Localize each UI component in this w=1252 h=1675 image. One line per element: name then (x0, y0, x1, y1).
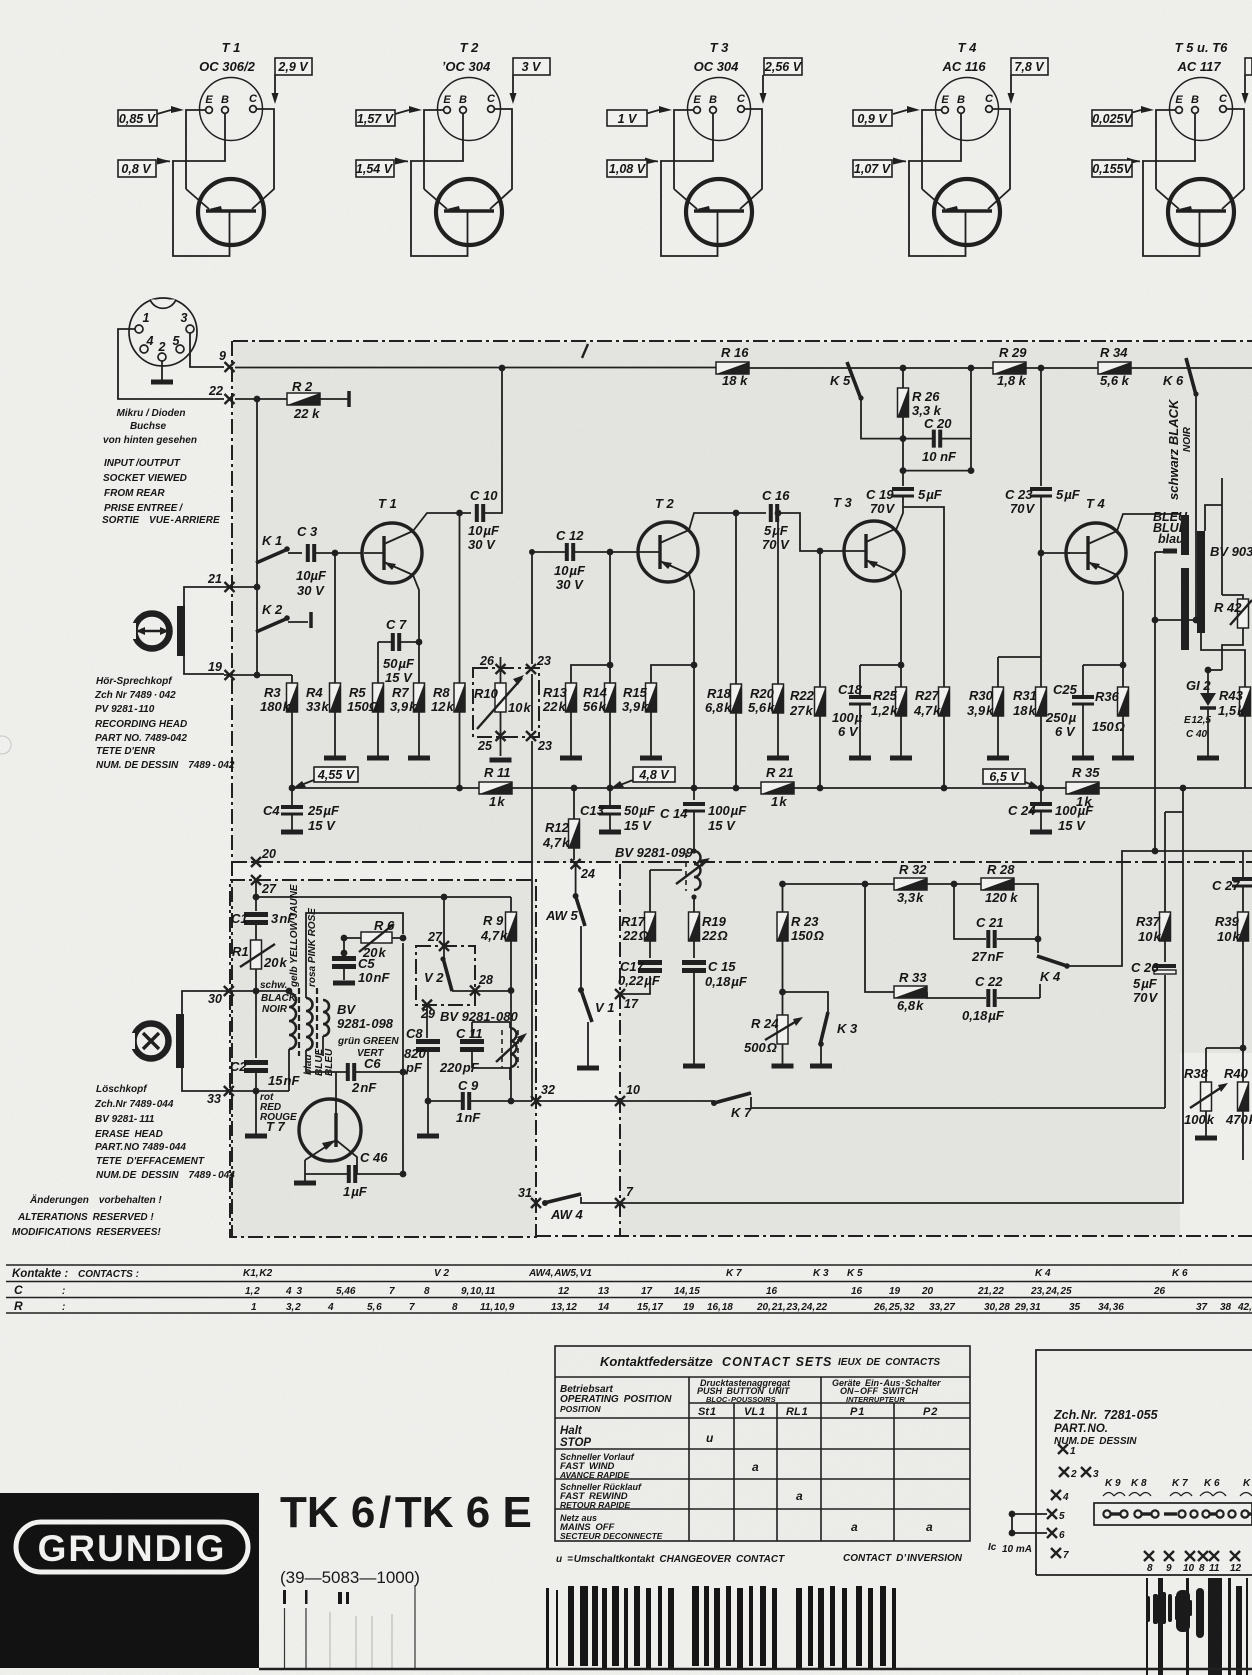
capacitor C22 (927, 992, 1038, 998)
resistor R43 (1240, 687, 1251, 716)
wire R28 to corner (1014, 884, 1038, 939)
resistor R25 (896, 687, 907, 716)
capacitor C20 (934, 430, 940, 448)
shaded main schematic region (233, 342, 1252, 863)
capacitor C6 (306, 1071, 403, 1073)
wire 22 down to K1,K2 (256, 399, 258, 676)
transistor T7 (299, 1072, 361, 1174)
transistor pinout T2 (356, 40, 550, 256)
ground R4 (324, 757, 346, 759)
resistor R26 (898, 388, 909, 417)
resistor R12 (569, 819, 580, 848)
resistor R39 (1238, 912, 1249, 941)
wire C7 left to R5 (378, 641, 419, 643)
capacitor C7 (393, 633, 399, 651)
ground C13 (599, 831, 621, 833)
recording head wires (184, 587, 224, 606)
wire T4 base col to R31 (1040, 553, 1042, 687)
ground R5 (367, 757, 389, 759)
switch K6 (1186, 358, 1199, 397)
wire base bias column (609, 552, 611, 683)
transistor pinout T1 (118, 40, 312, 256)
right region left border dash-dot (619, 864, 621, 1237)
transistor pinout T5/T6 (1092, 40, 1252, 256)
ground C2 (245, 1135, 267, 1137)
wire R2 to terminal (320, 398, 348, 400)
ground R7 (408, 757, 430, 759)
punch hole left edge (0, 736, 11, 754)
wire K1 to C3 (288, 552, 302, 554)
resistor R42 (1238, 599, 1249, 628)
capacitor C10 (477, 504, 483, 522)
smeared text row (546, 1586, 896, 1668)
wire T2 emitter (689, 574, 694, 788)
wire collector node to R27 (903, 507, 944, 687)
capacitor C18 (859, 665, 861, 695)
transformer core (1197, 531, 1205, 633)
transistor pinout T3 (607, 40, 803, 256)
transistor T3 (844, 521, 904, 581)
node 26 (496, 664, 506, 674)
oscillator box dash-dot border (230, 880, 536, 1237)
wire T2 collector to C16 (689, 513, 766, 530)
transistor T2 (638, 522, 698, 582)
wire 32 to 10 (536, 1100, 620, 1102)
slash mark on top border (582, 344, 588, 358)
node 23a (526, 664, 536, 674)
resistor R15 (646, 683, 657, 712)
wire 7 line (620, 788, 1183, 1203)
wire R15 top (651, 665, 694, 683)
junction 22/K1 (254, 396, 261, 403)
wire R17 tap (650, 870, 682, 912)
voltage box 4,55V (314, 767, 358, 782)
border top dash-dot (233, 340, 1252, 342)
wire C3 to T1 base (316, 552, 362, 554)
transformer BV9030 primary (1181, 515, 1189, 555)
switch V2 (440, 956, 452, 991)
potentiometer R24 (777, 1015, 788, 1044)
wire transformer secondary bottom (1201, 633, 1245, 670)
small blur dots above 8 9 (1146, 1592, 1192, 1624)
winding bottoms (289, 1036, 323, 1091)
wire V1 to ground (587, 1022, 589, 1066)
resistor R11 (479, 782, 512, 794)
wire R38 branch (1206, 1048, 1243, 1082)
capacitor C25 (1082, 665, 1084, 695)
capacitor C4 (291, 788, 293, 805)
wire R33 row (782, 991, 784, 993)
transformer T7 windings (289, 993, 329, 1050)
wire C20 right riser to bus (970, 368, 972, 471)
capacitor C11 (460, 1042, 484, 1050)
potentiometer R10 (495, 683, 506, 712)
junction base divider (332, 550, 339, 557)
node 31 (531, 1198, 541, 1208)
transistor pinout T4 (853, 40, 1048, 256)
node 21 (225, 582, 235, 592)
wire R23 top row (783, 883, 895, 885)
wire base R22 column (819, 551, 821, 687)
resistor R22 (815, 687, 826, 716)
node 10 (615, 1096, 625, 1106)
terminal K2 (310, 612, 312, 628)
capacitor C1 (244, 915, 268, 923)
pin marks #1-#7 (1047, 1444, 1099, 1561)
capacitor C15 (682, 963, 706, 971)
T2 base junction (607, 549, 614, 556)
capacitor C26 (1154, 966, 1176, 974)
resistor R3 (291, 675, 293, 788)
erase head wires (182, 991, 224, 1014)
resistor R37 (1165, 812, 1183, 912)
capacitor C27 (1242, 851, 1244, 877)
node 22 (225, 394, 235, 404)
node 20 (251, 857, 261, 867)
resistor R31 (1036, 687, 1047, 716)
node 17 (615, 989, 625, 999)
recording head (127, 606, 185, 656)
switch K4 (1037, 939, 1039, 953)
node 28 (470, 986, 480, 996)
wire K7 to R37 column (751, 1097, 1165, 1108)
node 27 (251, 875, 261, 885)
node 29 (422, 1000, 432, 1010)
wire C23 to T4 base (1041, 496, 1070, 553)
wire R23 to K3 (783, 992, 829, 1012)
variable inductor BV9281-099 (694, 851, 701, 890)
capacitor C16 (771, 504, 777, 522)
capacitor C17 (638, 963, 662, 971)
resistor R27 (939, 687, 950, 716)
border left dash-dot (231, 341, 233, 1237)
resistor R33 (894, 986, 927, 998)
resistor R21 (761, 782, 794, 794)
capacitor C5 (343, 938, 345, 955)
transformer core dashes (299, 988, 317, 1056)
top supply bus (235, 367, 1252, 370)
osc top rail (256, 896, 511, 898)
bottom bus (292, 787, 1252, 789)
osc coil variable (510, 1028, 517, 1067)
wire pin1 to node 22 (118, 329, 224, 399)
terminal (348, 391, 350, 407)
resistor R19 (693, 897, 695, 912)
ground R13 (560, 757, 582, 759)
resistor R40 (1238, 1082, 1249, 1111)
resistor R8 (459, 513, 461, 788)
bottom rule (259, 1668, 1252, 1670)
capacitor C14 (693, 788, 695, 800)
ground C4 (281, 831, 303, 833)
wire AW4 to 7 (581, 1197, 620, 1203)
resistor R17 (645, 912, 656, 941)
wire K6 node to tap junction (1193, 617, 1200, 624)
tick marks (283, 1590, 349, 1604)
resistor R18 (735, 513, 737, 684)
wire R26 to C20 (902, 417, 904, 471)
wire K5 to C20 row (861, 399, 903, 439)
resistor R5 (373, 683, 384, 712)
node 30 (224, 986, 234, 996)
node 19 (225, 670, 235, 680)
resistor R32 (894, 878, 927, 890)
wire 27 column (255, 880, 257, 911)
right bottom smears (1146, 1578, 1248, 1675)
resistor R29 (993, 362, 1026, 374)
wire AW5 to V1 (580, 926, 582, 990)
wire C16 to T3 base (779, 513, 846, 551)
wire C14/T2emitter col crossing bus (691, 785, 698, 792)
capacitor C8 (426, 1005, 428, 1038)
node 9 (225, 362, 235, 372)
wire pin3 to node 9 (190, 333, 224, 367)
resistor R2 (287, 393, 320, 405)
resistor R28 (981, 878, 1014, 890)
switch AW5 (573, 893, 585, 926)
record line vertical (531, 553, 533, 1101)
resistor R4 (330, 683, 341, 712)
wire T1 emitter down (413, 575, 419, 683)
wire 24 to AW5 (575, 864, 577, 896)
node 27b (439, 941, 449, 951)
R10 dash-dot box (473, 668, 539, 737)
V2 dash-dot box (416, 946, 475, 1005)
node 33 (224, 1086, 234, 1096)
wire T3 emitter (895, 573, 901, 665)
switch V1 (578, 987, 592, 1022)
K labels and braces (1105, 1478, 1251, 1489)
wire pin2 to ground (161, 361, 163, 380)
wire R13 top (571, 665, 610, 683)
capacitor C12 (567, 543, 573, 561)
capacitor C3 (308, 544, 314, 562)
potentiometer R38 (1201, 1082, 1212, 1111)
capacitor C21 (954, 884, 1038, 939)
wire jog to C19 (903, 470, 971, 472)
wire C22 riser to K4 (1038, 984, 1040, 998)
bottom x marks row (1144, 1551, 1242, 1574)
switch K2 (256, 615, 290, 632)
wire 21 line (224, 586, 257, 588)
transistor T1 (362, 523, 422, 583)
wire secondary top (1205, 478, 1222, 595)
switch K5 (847, 362, 864, 401)
node 24 (571, 859, 581, 869)
resistor R7 (414, 683, 425, 712)
wire bus to C23 (1040, 368, 1042, 486)
wire 33 row (224, 1090, 289, 1092)
contact strip (1094, 1503, 1252, 1525)
wire base divider down to R4 (334, 553, 336, 683)
capacitor C24 (1040, 788, 1042, 802)
wire bus to R26 (902, 368, 904, 388)
resistor R6 (359, 924, 394, 952)
capacitor C13 (609, 788, 611, 805)
resistor R13 (566, 683, 577, 712)
wire C19 to T3 collector (896, 496, 903, 530)
capacitor C46 (305, 1173, 403, 1175)
pigtail 10mA (1012, 1514, 1047, 1533)
transistor T4 (1066, 523, 1126, 583)
resistor R9 (510, 897, 512, 912)
border bottom of main area dash-dot (232, 861, 1252, 863)
wire T4 emitter (1117, 575, 1123, 665)
wire 30 row (224, 990, 289, 992)
resistor R23 (782, 884, 784, 912)
resistor R20 (777, 513, 779, 684)
wire T4 collector to transformer (1117, 514, 1181, 531)
switch K7 (620, 1100, 714, 1102)
node 23b (526, 731, 536, 741)
primary tap (1163, 549, 1177, 554)
DIN input/output socket (129, 298, 197, 366)
ground R15 (640, 757, 662, 759)
switch K3 (818, 1012, 828, 1047)
resistor R16 (716, 362, 749, 374)
diode GI2 (1200, 693, 1216, 708)
wire K2 to terminal (288, 621, 308, 623)
potentiometer R1 (251, 940, 262, 969)
wire R32 to R28 (927, 883, 981, 885)
node 7 (615, 1198, 625, 1208)
bottom border dash-dot (536, 1235, 1252, 1237)
wire C10 to bus riser (485, 368, 502, 513)
junction dots bottom bus (289, 785, 296, 792)
capacitor C2 (255, 991, 257, 1058)
wire 17 to C17 (620, 976, 650, 994)
switch K1 (256, 546, 290, 563)
capacitor C23 (1030, 489, 1052, 496)
switch AW4 (542, 1194, 581, 1206)
capacitor C9 (428, 1100, 532, 1102)
wire emitter junction row (860, 665, 901, 687)
thin vertical lines (285, 1585, 416, 1668)
ground T7 emitter (304, 1160, 306, 1181)
voltage box 6,5V (983, 769, 1025, 784)
wire node22 to R2 (235, 398, 287, 400)
shaded region below bus to bottom border, right part (620, 863, 1180, 1236)
resistor R36 (1118, 687, 1129, 716)
ground R10 (490, 759, 512, 761)
resistor R14 (605, 683, 616, 712)
capacitor C19 (902, 471, 904, 486)
node 25 (496, 731, 506, 741)
wire 19 line to R3 (224, 674, 292, 676)
shaded oscillator box (230, 880, 536, 1237)
feedback loop rect (306, 913, 403, 1072)
resistor R35 (1066, 782, 1099, 794)
wire K4 to riser (1067, 851, 1252, 966)
wire T1 collector to C10 (413, 513, 471, 531)
wire K6 down (schwarz) (1195, 395, 1197, 620)
resistor R30 (993, 687, 1004, 716)
node 32 (531, 1096, 541, 1106)
ground socket (151, 381, 173, 383)
resistor R34 (1098, 362, 1131, 374)
ground C15 (683, 1065, 705, 1067)
voltage box 4,8V (633, 767, 675, 782)
erase head (126, 1014, 184, 1068)
